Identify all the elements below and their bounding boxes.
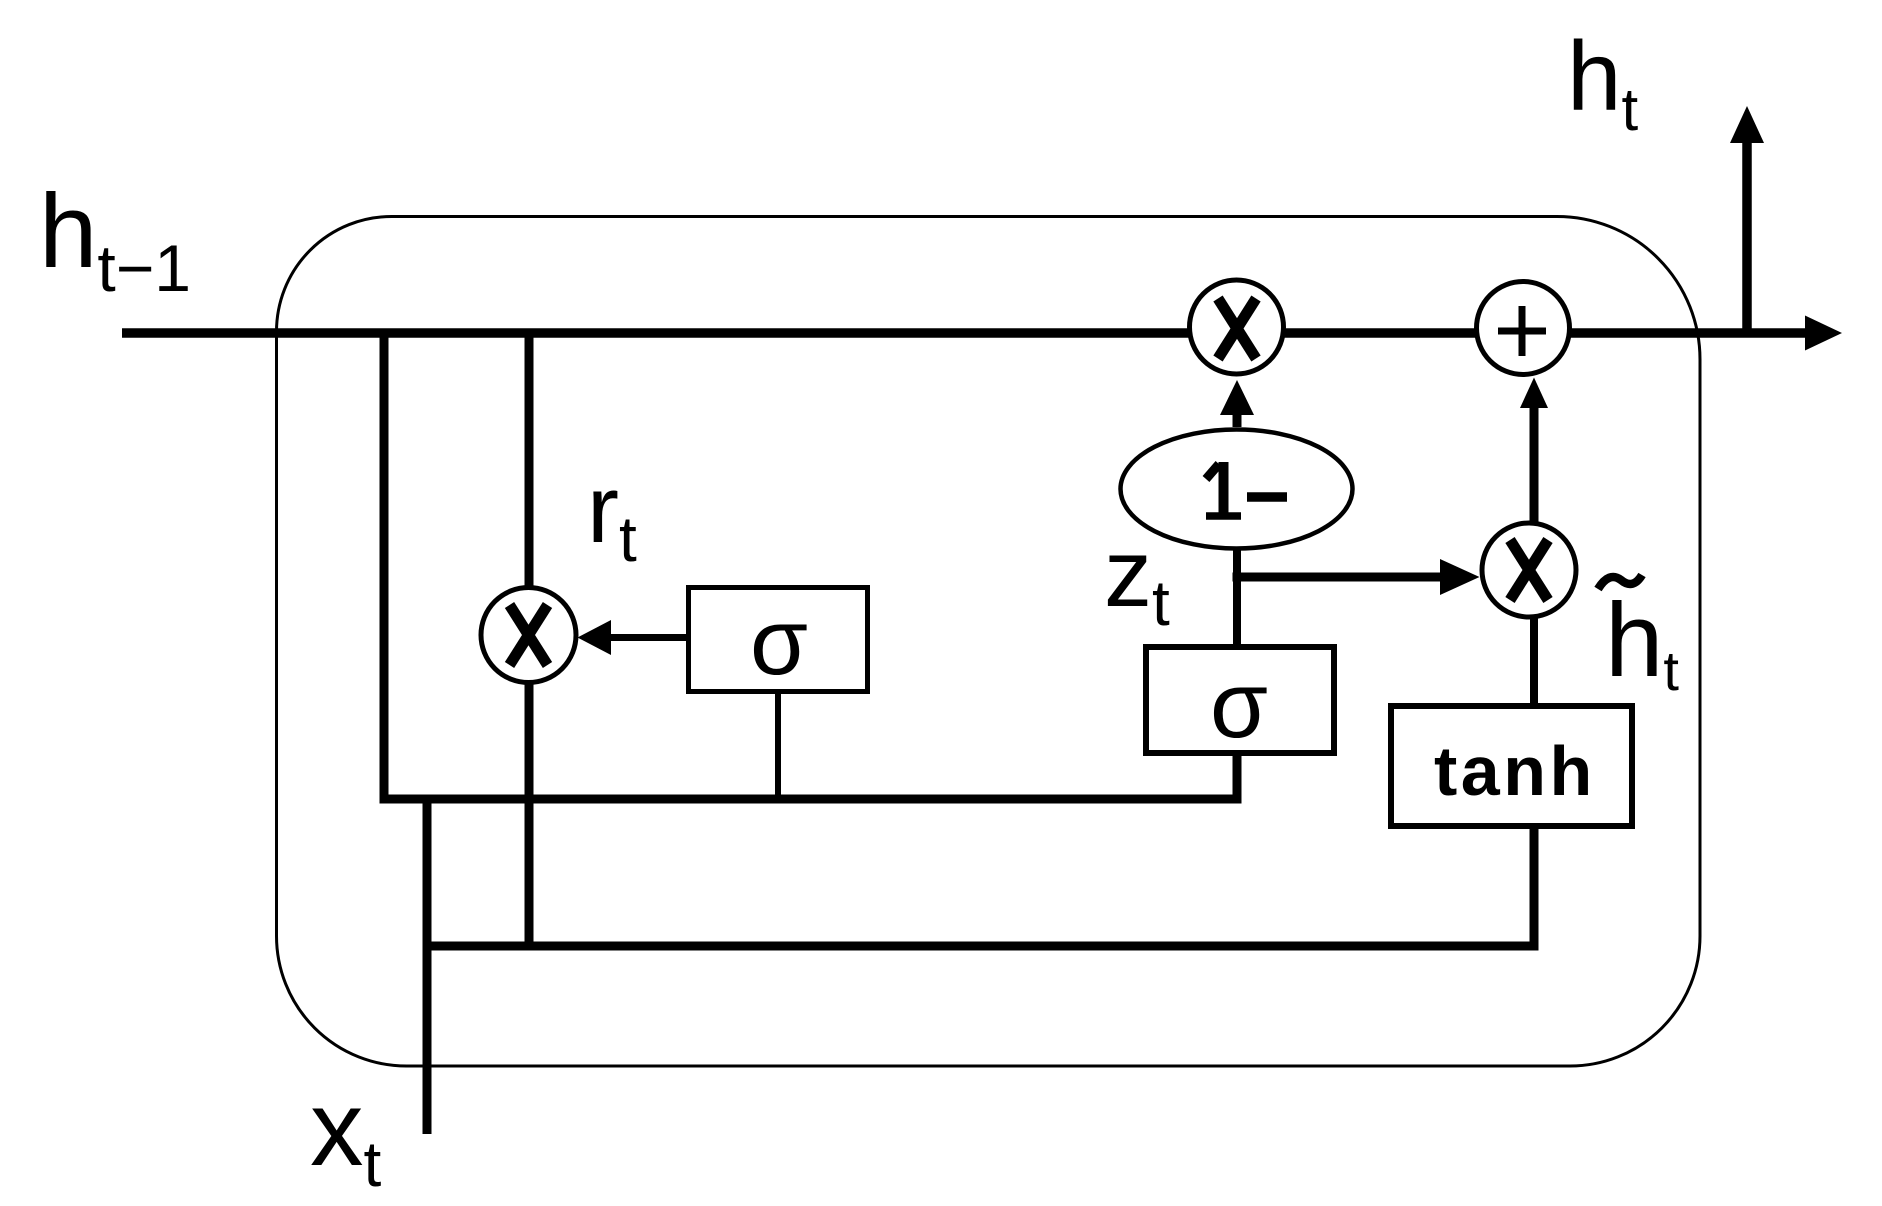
wire z vertical ellipse to sigma_z bbox=[1233, 549, 1241, 647]
wire branch h(t-1) down to reset multiply bbox=[525, 333, 534, 589]
svg-text:tanh: tanh bbox=[1434, 732, 1596, 810]
add node (+) bbox=[1477, 282, 1570, 375]
wire line 2 into tanh bbox=[423, 829, 1535, 946]
arrowhead output right bbox=[1805, 316, 1842, 351]
text 1-minus: minus dash bbox=[1247, 492, 1287, 502]
svg-text:σ: σ bbox=[1210, 652, 1268, 757]
box sigma_z bbox=[1146, 647, 1334, 753]
wire ellipse up bbox=[1233, 413, 1242, 427]
wire x_t input vertical bbox=[423, 799, 432, 1134]
wire concat line 1 to sigma_z bbox=[380, 751, 1238, 799]
text 1-minus: digit one bbox=[1219, 462, 1229, 519]
wire sigma_r output down to line 1 bbox=[775, 694, 781, 802]
box sigma_r bbox=[689, 588, 868, 692]
wire output up to h_t bbox=[1742, 141, 1752, 333]
wire reset multiply output down bbox=[525, 681, 534, 946]
wire candidate multiply down to tanh bbox=[1530, 618, 1538, 709]
arrowhead into forget multiply bbox=[1220, 380, 1254, 415]
box tanh bbox=[1391, 706, 1632, 826]
wire h(t-1) main horizontal line bbox=[122, 328, 1807, 338]
multiply node forget (X) on h line bbox=[1190, 280, 1284, 374]
multiply node reset gate (X) bbox=[481, 588, 576, 683]
wire branch h(t-1) down to gates line bbox=[380, 333, 389, 803]
multiply node candidate (X) bbox=[1482, 523, 1576, 617]
svg-text:σ: σ bbox=[750, 589, 808, 694]
GRU cell rounded box bbox=[277, 217, 1701, 1067]
label h-tilde_t bbox=[1598, 575, 1642, 589]
ellipse 1-minus bbox=[1121, 430, 1353, 549]
arrowhead output top bbox=[1730, 106, 1764, 143]
wire candidate multiply up to add node bbox=[1530, 406, 1539, 522]
arrow z branch to candidate multiply bbox=[1233, 573, 1443, 582]
arrow sigma_r to reset multiply bbox=[609, 634, 686, 641]
